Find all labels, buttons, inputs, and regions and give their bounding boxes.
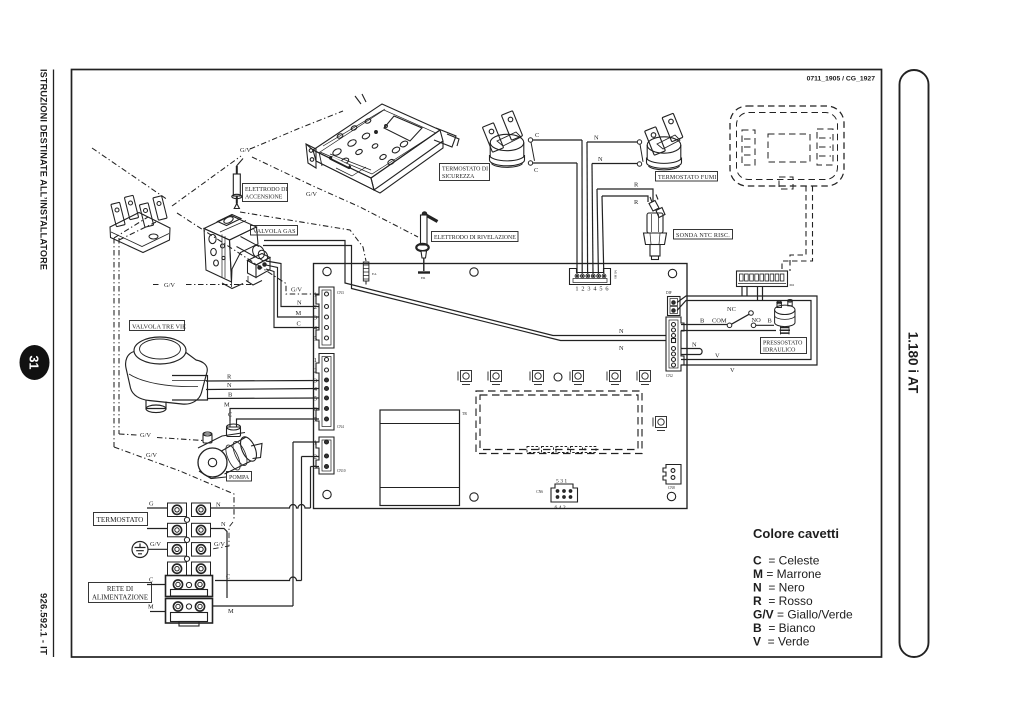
svg-text:B: B bbox=[768, 318, 772, 325]
svg-text:TERMOSTATO FUMI: TERMOSTATO FUMI bbox=[658, 175, 717, 181]
svg-text:G/V: G/V bbox=[240, 147, 251, 154]
svg-text:CN8: CN8 bbox=[668, 486, 675, 490]
connector DIF (2-pin, right) bbox=[666, 291, 680, 316]
wire: gas valve pair to CN2 (N) bbox=[263, 241, 666, 341]
svg-text:G/V: G/V bbox=[150, 541, 161, 548]
svg-text:5 3 1: 5 3 1 bbox=[556, 479, 567, 485]
svg-text:CN3: CN3 bbox=[337, 291, 344, 295]
wire loop: DIF to header to pressure switch enclosure (outer) bbox=[677, 287, 817, 366]
contact labels NC COM NO B B bbox=[700, 306, 772, 325]
burner manifold assembly bbox=[306, 94, 459, 193]
wire labels N on valve pair bbox=[619, 328, 624, 352]
earth symbol bbox=[132, 542, 148, 558]
room programmer panel (dashed) bbox=[730, 106, 844, 189]
svg-text:1: 1 bbox=[575, 286, 578, 293]
svg-text:C: C bbox=[534, 167, 538, 174]
svg-text:ELETTRODO DI RIVELAZIONE: ELETTRODO DI RIVELAZIONE bbox=[434, 235, 516, 241]
svg-text:R: R bbox=[227, 374, 232, 381]
display module footprint (dashed) bbox=[476, 391, 642, 454]
wire: N riser CN10 pin3 bbox=[311, 467, 320, 509]
wire: N row2 jog down bbox=[211, 529, 228, 599]
transformer block TR bbox=[380, 410, 467, 506]
dashed link: programmer to header strip bbox=[782, 186, 813, 271]
mains terminal block M bbox=[166, 599, 213, 627]
N jumper label bbox=[692, 342, 697, 349]
svg-text:R: R bbox=[634, 182, 639, 189]
svg-text:M: M bbox=[224, 402, 230, 409]
svg-text:1.180 i AT: 1.180 i AT bbox=[906, 332, 921, 394]
earth lead into CN3 pin1 (dash-dot) bbox=[177, 213, 319, 294]
svg-text:G: G bbox=[149, 501, 154, 508]
wires: terminal strip left side bbox=[147, 508, 168, 612]
valve wire labels R N B bbox=[227, 374, 232, 399]
svg-text:G/V: G/V bbox=[146, 452, 157, 459]
svg-text:R = Rosso: R = Rosso bbox=[753, 594, 813, 608]
svg-text:ELETTRODO DI: ELETTRODO DI bbox=[245, 187, 287, 193]
svg-text:2: 2 bbox=[314, 304, 317, 311]
connector CN8 (2-pin, lower right) bbox=[663, 465, 681, 491]
svg-text:3: 3 bbox=[314, 464, 317, 471]
svg-text:N: N bbox=[216, 502, 221, 509]
PCB mounting holes bbox=[323, 267, 677, 501]
G/V label at valve foot bbox=[164, 282, 175, 289]
header code 0711_1905 / CG_1927 bbox=[807, 76, 876, 83]
svg-text:M: M bbox=[148, 604, 154, 611]
svg-text:R: R bbox=[634, 199, 639, 206]
wire: CN2 pin2 under pressure switch bbox=[681, 330, 776, 332]
svg-text:N: N bbox=[619, 328, 624, 335]
wire: N jumper hairpin on CN2 bbox=[681, 349, 702, 355]
svg-text:Colore cavetti: Colore cavetti bbox=[753, 526, 839, 541]
page number badge 31 bbox=[20, 345, 50, 380]
svg-text:G/V: G/V bbox=[291, 287, 302, 294]
label TERMOSTATO bbox=[94, 513, 148, 526]
svg-text:N: N bbox=[692, 342, 697, 349]
svg-text:SONDA NTC RISC.: SONDA NTC RISC. bbox=[676, 233, 730, 239]
svg-text:5: 5 bbox=[314, 396, 317, 403]
svg-text:VALVOLA TRE VIE: VALVOLA TRE VIE bbox=[132, 324, 186, 331]
svg-text:POMPA: POMPA bbox=[229, 475, 250, 481]
svg-text:IDRAULICO: IDRAULICO bbox=[763, 348, 796, 354]
svg-text:CN4: CN4 bbox=[337, 425, 344, 429]
svg-text:ER: ER bbox=[421, 276, 426, 280]
sidebar rule bbox=[53, 70, 55, 658]
wire labels at CN3 bbox=[291, 287, 302, 328]
wire: M row to riser bbox=[213, 605, 294, 607]
svg-text:0711_1905 / CG_1927: 0711_1905 / CG_1927 bbox=[807, 76, 876, 83]
PCB board outline bbox=[314, 264, 688, 509]
svg-text:COM: COM bbox=[712, 318, 727, 325]
svg-text:C: C bbox=[535, 132, 539, 139]
right pill tab bbox=[900, 70, 929, 657]
svg-text:5: 5 bbox=[599, 286, 602, 293]
svg-text:NO: NO bbox=[752, 317, 762, 324]
earth dash at valve foot bbox=[153, 284, 251, 286]
svg-text:RETE DI: RETE DI bbox=[107, 586, 134, 593]
svg-text:1: 1 bbox=[314, 357, 317, 364]
wires: flue thermostat N pair bbox=[587, 142, 638, 164]
detection electrode bbox=[416, 212, 437, 280]
label ELETTRODO DI ACCENSIONE bbox=[243, 184, 288, 202]
earth network (dash-dot) bbox=[92, 111, 418, 549]
wire: N row1 across risers bbox=[211, 505, 311, 508]
svg-text:B: B bbox=[700, 318, 704, 325]
svg-text:PRESSOSTATO: PRESSOSTATO bbox=[763, 341, 803, 347]
svg-text:V: V bbox=[715, 353, 720, 360]
label VALVOLA TRE VIE bbox=[130, 321, 187, 331]
wires: NTC sensor R pair bbox=[597, 189, 653, 202]
ignition electrode bbox=[232, 159, 243, 209]
mains terminal block C bbox=[166, 576, 213, 597]
svg-text:1: 1 bbox=[314, 292, 317, 299]
connector M1 (6-pin, top) bbox=[570, 269, 618, 293]
svg-text:ISTRUZIONI DESTINATE ALL’INSTA: ISTRUZIONI DESTINATE ALL’INSTALLATORE bbox=[39, 69, 49, 270]
label PRESSOSTATO IDRAULICO bbox=[761, 338, 807, 354]
svg-text:B = Bianco: B = Bianco bbox=[753, 621, 816, 635]
three-way valve actuator bbox=[126, 337, 208, 413]
svg-text:2: 2 bbox=[314, 368, 317, 375]
sidebar code 926.592.1 - IT bbox=[38, 593, 49, 655]
terminal left labels bbox=[148, 501, 161, 611]
flue thermostat contacts bbox=[637, 140, 643, 166]
svg-text:N: N bbox=[619, 345, 624, 352]
V wire label bbox=[715, 353, 735, 375]
earth labels G/V bbox=[140, 147, 317, 459]
svg-text:M: M bbox=[296, 310, 302, 317]
svg-text:31: 31 bbox=[27, 356, 41, 370]
svg-text:CN2: CN2 bbox=[666, 374, 673, 378]
label ELETTRODO DI RIVELAZIONE bbox=[432, 232, 519, 242]
water pressure switch body bbox=[775, 300, 795, 335]
terminal strip rows bbox=[168, 503, 211, 576]
svg-text:G/V: G/V bbox=[140, 432, 151, 439]
svg-text:M1HS: M1HS bbox=[614, 270, 618, 279]
wire: M riser CN10 pin1 bbox=[293, 442, 319, 606]
sidebar title ISTRUZIONI DESTINATE ALL'INSTALLATORE bbox=[39, 69, 49, 270]
R wire labels bbox=[634, 182, 639, 207]
wires: pump M and C to CN4 bbox=[230, 409, 319, 422]
label POMPA bbox=[227, 472, 252, 482]
svg-text:VALVOLA GAS: VALVOLA GAS bbox=[253, 229, 296, 235]
svg-text:3: 3 bbox=[314, 315, 317, 322]
terminal right labels bbox=[214, 502, 234, 616]
svg-text:SICUREZZA: SICUREZZA bbox=[442, 174, 475, 180]
svg-text:V = Verde: V = Verde bbox=[753, 635, 810, 649]
ignition lead (dash-dot) with suppressor sleeve bbox=[240, 212, 377, 285]
svg-text:NC: NC bbox=[727, 306, 736, 313]
svg-text:C: C bbox=[226, 574, 230, 581]
svg-text:4: 4 bbox=[593, 286, 597, 293]
N wire labels bbox=[594, 135, 603, 164]
svg-text:TERMOSTATO: TERMOSTATO bbox=[97, 516, 144, 524]
legend Colore cavetti bbox=[753, 526, 853, 649]
svg-text:6: 6 bbox=[605, 286, 608, 293]
svg-text:N: N bbox=[227, 382, 232, 389]
svg-text:M = Marrone: M = Marrone bbox=[753, 567, 822, 581]
label SONDA NTC RISC. bbox=[674, 230, 733, 240]
pressure switch contacts NC/COM/NO bbox=[727, 311, 756, 328]
wires: three-way valve to CN4 bbox=[206, 381, 319, 399]
svg-text:C: C bbox=[297, 321, 301, 328]
svg-text:ACCENSIONE: ACCENSIONE bbox=[245, 195, 283, 201]
varistor row on PCB bbox=[458, 371, 667, 431]
svg-text:TERMOSTATO DI: TERMOSTATO DI bbox=[442, 167, 488, 173]
svg-text:3: 3 bbox=[587, 286, 590, 293]
svg-text:TR: TR bbox=[462, 412, 467, 416]
svg-text:M2: M2 bbox=[790, 283, 795, 287]
wire: C riser CN10 pin2 bbox=[302, 457, 320, 581]
flue thermostat body bbox=[645, 113, 683, 170]
svg-text:4: 4 bbox=[314, 325, 318, 332]
svg-text:N: N bbox=[297, 300, 302, 307]
pump wire labels M C bbox=[224, 402, 232, 419]
svg-text:G/V = Giallo/Verde: G/V = Giallo/Verde bbox=[753, 608, 853, 622]
svg-text:CN6: CN6 bbox=[536, 490, 543, 494]
wire: C row to riser bbox=[215, 577, 302, 581]
wire: CN2 B to pressure switch COM bbox=[681, 324, 727, 326]
svg-text:N: N bbox=[594, 135, 599, 142]
svg-text:G/V: G/V bbox=[164, 282, 175, 289]
svg-text:CN10: CN10 bbox=[337, 469, 346, 473]
svg-text:C = Celeste: C = Celeste bbox=[753, 554, 820, 568]
connector CN10 (3-pin, left) bbox=[314, 437, 346, 474]
label TERMOSTATO DI SICUREZZA bbox=[440, 164, 490, 181]
svg-text:7: 7 bbox=[314, 417, 318, 424]
label VALVOLA GAS bbox=[251, 226, 298, 236]
circulation pump bbox=[198, 421, 262, 479]
svg-text:2: 2 bbox=[581, 286, 584, 293]
wires: safety thermostat C pair bbox=[533, 140, 582, 163]
svg-text:B: B bbox=[228, 392, 232, 399]
page frame bbox=[72, 70, 882, 658]
svg-text:C: C bbox=[228, 412, 232, 419]
connector CN6 (6-pin, bottom) bbox=[536, 479, 577, 512]
svg-text:N: N bbox=[221, 521, 226, 528]
connector CN3 (5-pin, left) bbox=[314, 287, 344, 348]
svg-text:926.592.1 - IT: 926.592.1 - IT bbox=[38, 593, 49, 655]
svg-text:4: 4 bbox=[314, 386, 318, 393]
svg-text:6 4 2: 6 4 2 bbox=[555, 505, 566, 511]
svg-text:G/V: G/V bbox=[214, 541, 225, 548]
wire: NO to pressure switch bbox=[756, 324, 774, 326]
wires: gas valve to CN3 bbox=[266, 261, 319, 328]
svg-text:ALIMENTAZIONE: ALIMENTAZIONE bbox=[92, 595, 148, 602]
svg-text:G/V: G/V bbox=[306, 191, 317, 198]
C wire labels bbox=[534, 132, 539, 174]
svg-text:1: 1 bbox=[314, 440, 317, 447]
label TERMOSTATO FUMI bbox=[656, 172, 718, 182]
NTC heating sensor bbox=[644, 195, 667, 260]
earth bracket with tabs bbox=[110, 195, 170, 252]
connector CN4 (7-pin, left) bbox=[314, 354, 344, 431]
svg-text:5: 5 bbox=[314, 336, 317, 343]
display wire header strip bbox=[737, 271, 795, 287]
svg-text:V: V bbox=[730, 367, 735, 374]
svg-text:EA: EA bbox=[372, 272, 377, 276]
svg-text:N: N bbox=[598, 156, 603, 163]
svg-text:M: M bbox=[228, 608, 234, 615]
svg-text:DIF: DIF bbox=[666, 291, 672, 295]
connector CN2 (8-pin, right edge) bbox=[666, 317, 684, 378]
safety thermostat contacts bbox=[528, 138, 534, 165]
label RETE DI ALIMENTAZIONE bbox=[89, 583, 152, 603]
safety thermostat body bbox=[482, 111, 524, 168]
gas valve assembly bbox=[204, 215, 270, 289]
harness bundle to connector M1 bbox=[577, 140, 604, 274]
svg-text:N = Nero: N = Nero bbox=[753, 581, 805, 595]
